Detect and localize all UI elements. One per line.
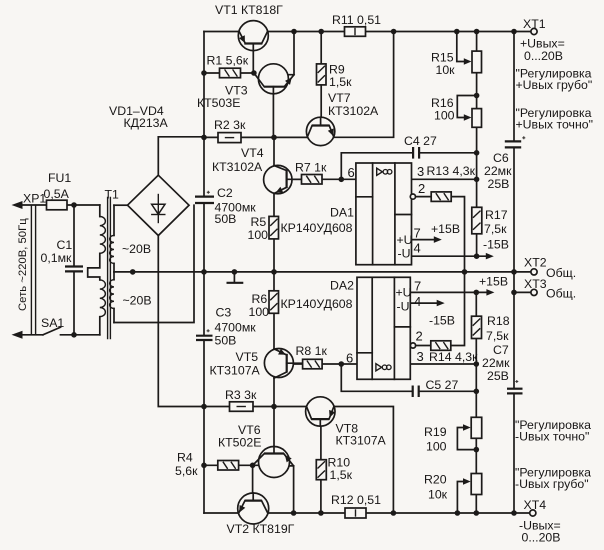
label XT2 common bbox=[546, 266, 576, 280]
wire VT3 base lead down to R2 node bbox=[272, 94, 274, 137]
svg-text:R8 1к: R8 1к bbox=[296, 344, 328, 358]
svg-text:DA2: DA2 bbox=[330, 279, 354, 293]
label XT2 bbox=[524, 255, 547, 269]
node R2 on rail bbox=[201, 135, 207, 141]
label C2 voltage bbox=[215, 212, 237, 226]
label C3 voltage bbox=[215, 334, 237, 348]
op-amp DA1 KR140UD608 bbox=[356, 163, 416, 265]
wire right rail C7 to bottom bus bbox=[513, 394, 515, 513]
label VT4 type bbox=[212, 160, 263, 174]
wire C1 branch vertical bbox=[73, 205, 75, 335]
svg-text:2: 2 bbox=[416, 329, 423, 344]
svg-text:-Uвых точно": -Uвых точно" bbox=[515, 430, 589, 444]
plug XP1 pin arrow top bbox=[12, 201, 23, 209]
label DA2 +15V bbox=[479, 275, 508, 289]
transformer T1 core bbox=[108, 198, 111, 339]
wire R6 bottom to VT5 emitter bbox=[273, 313, 275, 349]
svg-text:Общ.: Общ. bbox=[546, 287, 576, 301]
label VT4 bbox=[241, 146, 264, 160]
node R5/R6 on common bus bbox=[271, 269, 277, 275]
svg-text:7,5к: 7,5к bbox=[484, 222, 507, 236]
label XT3 bbox=[524, 277, 547, 291]
wire XT3 stub bbox=[514, 291, 531, 293]
resistor R10 1.5k bbox=[316, 460, 326, 480]
label C6 bbox=[493, 151, 509, 165]
transistor VT1 KT818G bbox=[238, 21, 268, 73]
label T1 bbox=[105, 187, 120, 201]
node XT1 branch on top bus bbox=[511, 29, 517, 35]
svg-text:+15В: +15В bbox=[431, 222, 460, 236]
wire DA2 pin 4 with -15V arrow bbox=[410, 300, 444, 307]
terminal XT2 bbox=[531, 269, 537, 275]
wire R16 wiper tie bbox=[457, 96, 476, 118]
label R5 bbox=[251, 215, 267, 229]
label XT1 range bbox=[524, 49, 563, 63]
terminal XT1 bbox=[531, 28, 537, 34]
transistor VT8 KT3107A bbox=[306, 397, 336, 426]
svg-text:КТ3107А: КТ3107А bbox=[210, 363, 261, 377]
label R10 value bbox=[330, 468, 353, 482]
node R4 / VT6 collector / VT2 base bbox=[250, 463, 256, 469]
svg-text:R3 3к: R3 3к bbox=[225, 388, 257, 402]
wire secondary bottom to bridge right vertex bbox=[114, 205, 194, 322]
wire C5 right to divider chain bbox=[419, 390, 477, 392]
label VT3 bbox=[225, 84, 248, 98]
wire R2 branch from rail to VT3 base / VT4 collector / VT7 collector node bbox=[204, 136, 307, 138]
svg-text:КТ503Е: КТ503Е bbox=[197, 96, 240, 110]
svg-text:R13 4,3к: R13 4,3к bbox=[427, 164, 476, 178]
node R10 on bottom bus bbox=[318, 510, 324, 516]
node R20 wiper on bus bbox=[455, 510, 461, 516]
svg-text:-15В: -15В bbox=[429, 314, 455, 328]
label R15 value bbox=[436, 63, 456, 77]
transformer T1 secondary winding lower ~20V bbox=[110, 272, 114, 323]
svg-text:0...20В: 0...20В bbox=[522, 531, 561, 545]
resistor R12 0.51 bbox=[345, 508, 366, 518]
capacitor C2 4700uF 50V bbox=[195, 191, 214, 203]
svg-text:R19: R19 bbox=[424, 425, 447, 439]
svg-text:5,6к: 5,6к bbox=[175, 464, 198, 478]
svg-text:4: 4 bbox=[414, 241, 421, 256]
node VT7 emitter on top bus bbox=[391, 29, 397, 35]
label VT5 type bbox=[210, 363, 261, 377]
label C4 value bbox=[404, 134, 437, 148]
label DA2 +U bbox=[396, 286, 412, 300]
wire VT7 emitter to top bus bbox=[334, 32, 394, 138]
label R6 value bbox=[249, 305, 270, 319]
label DA2 pin 6 bbox=[346, 351, 353, 366]
svg-text:С1: С1 bbox=[57, 238, 73, 252]
wire divider chain pin3 node through C5 node to R19 R20 to bottom bus bbox=[475, 364, 477, 513]
svg-text:ХТ1: ХТ1 bbox=[523, 17, 546, 31]
wire R15 wiper tie to top bus bbox=[457, 32, 464, 62]
transformer T1 primary winding bbox=[88, 205, 106, 335]
svg-text:4700мк: 4700мк bbox=[215, 320, 257, 334]
label R12 value bbox=[331, 493, 381, 507]
svg-text:VT4: VT4 bbox=[241, 146, 264, 160]
label DA1 type bbox=[281, 221, 353, 235]
label secondary lower voltage bbox=[123, 294, 152, 308]
svg-text:100: 100 bbox=[434, 108, 455, 122]
wire R3 branch from -raw rail to VT5 collector / VT6 base / VT8 emitter node bbox=[204, 406, 307, 408]
node +raw rail on common bus (C2/C3) bbox=[201, 269, 207, 275]
svg-text:КД213А: КД213А bbox=[124, 116, 169, 130]
svg-text:4: 4 bbox=[414, 294, 421, 309]
node XT2 on common bus bbox=[511, 269, 517, 275]
resistor R13 4.3k bbox=[431, 192, 451, 202]
wire VT4 emitter down to R5 bbox=[273, 193, 275, 216]
svg-text:R14 4,3к: R14 4,3к bbox=[429, 350, 478, 364]
wire right rail XT2 to XT3 to C7 bbox=[513, 272, 515, 389]
label regulation +U fine line2 bbox=[516, 118, 593, 132]
node VT3 emitter on top bus bbox=[291, 29, 297, 35]
svg-text:Сеть ~220В, 50Гц: Сеть ~220В, 50Гц bbox=[17, 218, 29, 311]
transistor VT2 KT819G bbox=[238, 493, 269, 524]
label regulation -U coarse line2 bbox=[515, 477, 589, 491]
label DA1 pin 6 bbox=[348, 165, 355, 180]
svg-text:25В: 25В bbox=[488, 177, 510, 191]
svg-text:R11 0,51: R11 0,51 bbox=[332, 13, 381, 27]
arrow R15 wiper bbox=[464, 58, 472, 65]
wire C4 link from pin6 node bbox=[341, 153, 413, 180]
label regulation -U fine line2 bbox=[515, 430, 589, 444]
svg-text:ХТ3: ХТ3 bbox=[524, 277, 547, 291]
node DA2 pin 6 / C5 junction bbox=[339, 361, 345, 367]
svg-text:FU1: FU1 bbox=[48, 171, 71, 185]
svg-text:С5 27: С5 27 bbox=[426, 378, 459, 392]
label C3 bbox=[216, 305, 232, 319]
node R3 on rail bbox=[201, 404, 207, 410]
transformer T1 secondary winding upper ~20V bbox=[110, 205, 114, 272]
wire DA2 pin 7 to +15V arrow bbox=[410, 289, 494, 296]
label C7 bbox=[493, 343, 509, 357]
svg-text:22мк: 22мк bbox=[482, 356, 510, 370]
node R13/R14 on common bus bbox=[462, 269, 468, 275]
node R15 wiper on bus bbox=[454, 29, 460, 35]
wire rail C2 bottom to common bus to C3 top bbox=[203, 203, 205, 335]
node C4 on divider chain bbox=[474, 150, 480, 156]
wire mains cord pair bbox=[31, 206, 35, 335]
label R9 value bbox=[329, 75, 352, 89]
svg-text:ХТ4: ХТ4 bbox=[524, 498, 547, 512]
svg-text:R17: R17 bbox=[485, 208, 508, 222]
resistor R3 3k bbox=[230, 402, 254, 412]
capacitor C3 4700uF 50V bbox=[196, 329, 213, 340]
label DA2 bbox=[330, 279, 354, 293]
wire DA1 pin 2 through R13 down to common bus and DA2 pin 2 through R14 bbox=[415, 197, 464, 346]
switch SA1 blade bbox=[43, 327, 61, 335]
wire R18 column DA2 pin7 node to pin3 node bbox=[475, 292, 477, 364]
label R14 value bbox=[429, 350, 478, 364]
wire VT3 emitter to top bus bbox=[288, 32, 294, 75]
wire VT6 emitter to bottom bus bbox=[288, 466, 294, 513]
label R18 bbox=[487, 314, 510, 328]
label R19 bbox=[424, 425, 447, 439]
wire R7 from VT4 base to DA1 pin 6 bbox=[287, 178, 356, 180]
label FU1 bbox=[48, 171, 71, 185]
wire C4 right to divider chain bbox=[419, 152, 476, 154]
node DA1 pin 3 on divider chain bbox=[474, 177, 480, 183]
wire bridge left vertex to secondary top bbox=[114, 204, 128, 206]
node R20 bottom on bus bbox=[474, 510, 480, 516]
node R19-R20 junction bbox=[474, 447, 480, 453]
node R9 on top bus bbox=[318, 29, 324, 35]
label C3 value bbox=[215, 320, 257, 334]
svg-text:7,5к: 7,5к bbox=[486, 329, 509, 343]
node switch-C1 junction bbox=[71, 332, 77, 338]
label VT5 bbox=[236, 350, 259, 364]
svg-text:Общ.: Общ. bbox=[546, 266, 576, 280]
node DA1 pin 6 / C4 junction bbox=[339, 177, 345, 183]
node R3 / VT5 collector / VT6 base bbox=[271, 404, 277, 410]
wire R8 from VT5 base to DA2 pin 6 bbox=[287, 363, 357, 365]
label DA1 pin 3 bbox=[417, 164, 424, 179]
label R9 bbox=[329, 63, 345, 77]
wire mains top conductor (plug pin XP1 to fuse FU1 to T1 primary top) bbox=[16, 204, 100, 206]
node VT6 emitter on bottom bus bbox=[291, 510, 297, 516]
svg-text:-15В: -15В bbox=[483, 238, 509, 252]
label C7 voltage bbox=[487, 369, 509, 383]
svg-text:С4 27: С4 27 bbox=[404, 134, 437, 148]
label C6 value bbox=[484, 164, 512, 178]
wire right output rail XT1 to C6 to XT2 bbox=[513, 32, 515, 272]
op-amp DA2 KR140UD608 bbox=[357, 277, 416, 379]
svg-text:1,5к: 1,5к bbox=[329, 75, 352, 89]
svg-text:+U: +U bbox=[396, 286, 412, 300]
svg-text:С2: С2 bbox=[217, 186, 233, 200]
arrow R20 wiper bbox=[463, 478, 471, 485]
label XT1 +Uout bbox=[520, 37, 565, 51]
label R16 bbox=[431, 96, 454, 110]
svg-text:2: 2 bbox=[418, 181, 425, 196]
svg-text:7: 7 bbox=[414, 226, 421, 241]
svg-text:SA1: SA1 bbox=[41, 316, 64, 330]
svg-text:50В: 50В bbox=[215, 334, 237, 348]
svg-text:R20: R20 bbox=[424, 473, 447, 487]
label DA1 +15V bbox=[431, 222, 460, 236]
resistor R8 1k bbox=[303, 359, 323, 369]
node R15-R16 junction bbox=[474, 93, 480, 99]
label R17 bbox=[485, 208, 508, 222]
diode bridge VD1-VD4 bbox=[128, 175, 190, 235]
resistor R1 5.6k bbox=[220, 68, 241, 78]
potentiometer R19 100 bbox=[471, 417, 482, 438]
svg-text:3: 3 bbox=[417, 164, 424, 179]
svg-text:100: 100 bbox=[248, 228, 269, 242]
node R4 on rail bbox=[201, 463, 207, 469]
label VT2 value bbox=[227, 522, 295, 536]
svg-text:6: 6 bbox=[348, 165, 355, 180]
resistor R17 7.5k bbox=[472, 207, 482, 234]
wire VT8 collector to bottom bus bbox=[334, 407, 394, 514]
label DA2 type bbox=[281, 297, 353, 311]
label DA1 -U bbox=[398, 247, 411, 261]
wire mains bottom conductor (plug pin to switch SA1 to T1 primary bottom) bbox=[16, 334, 100, 336]
label R15 bbox=[431, 50, 454, 64]
node fuse-C1 junction bbox=[71, 202, 77, 208]
terminal XT3 bbox=[531, 289, 537, 295]
label C7 value bbox=[482, 356, 510, 370]
label R17 value bbox=[484, 222, 507, 236]
node DA2 pin 3 on divider chain bbox=[474, 361, 480, 367]
svg-text:-U: -U bbox=[398, 247, 411, 261]
label R20 value bbox=[428, 488, 448, 502]
label regulation +U coarse line1 bbox=[516, 67, 592, 81]
svg-text:КТ3102А: КТ3102А bbox=[212, 160, 263, 174]
svg-text:VT2 КТ819Г: VT2 КТ819Г bbox=[227, 522, 295, 536]
svg-text:~20В: ~20В bbox=[122, 242, 151, 256]
node R15 top on bus bbox=[474, 29, 480, 35]
wire DA2 pin 3 to divider chain bbox=[410, 363, 476, 365]
svg-text:КТ502Е: КТ502Е bbox=[218, 436, 261, 450]
label R19 value bbox=[426, 440, 447, 454]
resistor R18 7.5k bbox=[472, 316, 482, 338]
svg-text:ХТ2: ХТ2 bbox=[524, 255, 547, 269]
label XT4 range bbox=[522, 531, 561, 545]
wire bottom output bus (VT2 collector to XT4) bbox=[204, 512, 530, 514]
label R4 value bbox=[175, 464, 198, 478]
label R3 value bbox=[225, 388, 257, 402]
wire R5 bottom to common bus bbox=[273, 239, 275, 272]
node C7 rail on bottom bus bbox=[511, 510, 517, 516]
svg-text:0,5А: 0,5А bbox=[44, 187, 70, 201]
label VT7 type bbox=[328, 104, 379, 118]
label VT8 type bbox=[336, 434, 387, 448]
svg-text:С6: С6 bbox=[493, 151, 509, 165]
svg-text:1,5к: 1,5к bbox=[330, 468, 353, 482]
wire R19 wiper tie to R19 bottom bbox=[457, 428, 476, 450]
label R4 bbox=[177, 451, 193, 465]
resistor R6 100 bbox=[269, 291, 279, 314]
svg-text:VT7: VT7 bbox=[328, 91, 351, 105]
label regulation +U fine line1 bbox=[516, 106, 592, 120]
transistor VT6 KT502E bbox=[253, 447, 294, 478]
ground symbol on common bus bbox=[227, 269, 244, 283]
wire divider chain R15 R16 column from top bus bbox=[476, 32, 478, 208]
label C1 bbox=[57, 238, 73, 252]
svg-text:-U: -U bbox=[397, 300, 410, 314]
label regulation +U coarse line2 bbox=[516, 78, 593, 92]
label DA2 pin 7 bbox=[414, 279, 421, 294]
svg-text:+Uвых грубо": +Uвых грубо" bbox=[516, 78, 593, 92]
wire VT4 collector up to R2 node bbox=[273, 137, 275, 166]
wire R6 top from common bus bbox=[273, 272, 275, 291]
resistor R9 1.5k bbox=[317, 64, 327, 85]
resistor R4 5.6k bbox=[218, 461, 239, 471]
transistor VT3 KT503E bbox=[254, 64, 294, 94]
label DA1 bbox=[330, 205, 354, 219]
svg-text:6: 6 bbox=[346, 351, 353, 366]
wire R9 from top bus to VT7 base bbox=[320, 32, 322, 126]
label FU1 value bbox=[44, 187, 70, 201]
potentiometer R20 10k bbox=[471, 474, 482, 495]
svg-text:10к: 10к bbox=[428, 488, 448, 502]
label R20 bbox=[424, 473, 447, 487]
label VD1-VD4 bbox=[109, 104, 164, 118]
svg-text:R12 0,51: R12 0,51 bbox=[331, 493, 381, 507]
label C5 value bbox=[426, 378, 459, 392]
plug XP1 pin arrow bottom bbox=[12, 331, 23, 339]
label R1 value bbox=[207, 54, 249, 68]
label XT4 -Uout bbox=[519, 519, 561, 533]
svg-text:+U: +U bbox=[397, 233, 413, 247]
label DA2 pin 2 bbox=[416, 329, 423, 344]
label VT1 value bbox=[215, 3, 283, 17]
fuse FU1 bbox=[47, 200, 68, 210]
svg-text:0...20В: 0...20В bbox=[524, 49, 563, 63]
resistor R14 4.3k bbox=[431, 341, 451, 351]
svg-text:R18: R18 bbox=[487, 314, 510, 328]
node VT1 base / VT3 collector / R1 bbox=[251, 70, 257, 76]
wire VT6 base lead up to R3 node bbox=[273, 407, 275, 454]
svg-text:С3: С3 bbox=[216, 305, 232, 319]
label VT7 bbox=[328, 91, 351, 105]
node XT3 branch bbox=[511, 290, 517, 296]
wire C5 link from pin6 node bbox=[341, 364, 412, 391]
label R7 value bbox=[295, 161, 327, 175]
label XT3 common bbox=[546, 287, 576, 301]
label VT3 type bbox=[197, 96, 240, 110]
label DA1 pin 2 bbox=[418, 181, 425, 196]
label DA1 pin 4 bbox=[414, 241, 421, 256]
node C5 on divider chain bbox=[474, 389, 480, 395]
label R6 bbox=[252, 292, 268, 306]
wire VT8 base to R10 to bottom bus bbox=[320, 419, 322, 513]
label R2 value bbox=[214, 118, 246, 132]
label regulation -U fine line1 bbox=[515, 418, 591, 432]
svg-text:R1 5,6к: R1 5,6к bbox=[207, 54, 249, 68]
label R11 value bbox=[332, 13, 381, 27]
wire +raw rail (VT1 emitter / R1 / R2 / C2 column) bbox=[203, 32, 205, 197]
svg-text:R5: R5 bbox=[251, 215, 267, 229]
wire VT5 collector down to R3 node bbox=[273, 378, 275, 407]
label R10 bbox=[328, 455, 351, 469]
svg-text:-Uвых грубо": -Uвых грубо" bbox=[515, 477, 589, 491]
label R8 value bbox=[296, 344, 328, 358]
svg-text:Т1: Т1 bbox=[105, 187, 120, 201]
svg-text:100: 100 bbox=[249, 305, 270, 319]
label C2 value bbox=[215, 200, 257, 214]
svg-text:R2 3к: R2 3к bbox=[214, 118, 246, 132]
svg-text:R7 1к: R7 1к bbox=[295, 161, 327, 175]
wire DA1 pin 4 to -15V arrow bbox=[412, 253, 494, 260]
label VT8 bbox=[336, 422, 359, 436]
capacitor C1 bbox=[65, 267, 83, 272]
label VT6 bbox=[238, 423, 261, 437]
svg-text:VT5: VT5 bbox=[236, 350, 259, 364]
transistor VT4 KT3102A bbox=[264, 165, 302, 193]
label XT4 bbox=[524, 498, 547, 512]
label VD type KD213A bbox=[124, 116, 169, 130]
wire -raw rail (C3 bottom / R3 / down to VT2 emitter bus) bbox=[203, 340, 205, 513]
wire top output bus (VT1 collector to XT1) bbox=[204, 31, 531, 33]
label DA1 pin 7 bbox=[414, 226, 421, 241]
transistor VT5 KT3107A bbox=[264, 349, 302, 379]
label XP1 bbox=[23, 192, 46, 206]
wire DA1 pin 7 with +15V arrow bbox=[412, 236, 442, 243]
svg-text:7: 7 bbox=[414, 279, 421, 294]
svg-text:R6: R6 bbox=[252, 292, 268, 306]
label DA2 -15V bbox=[429, 314, 455, 328]
svg-text:R4: R4 bbox=[177, 451, 193, 465]
label R13 value bbox=[427, 164, 476, 178]
capacitor C5 27 bbox=[413, 386, 419, 398]
svg-text:3: 3 bbox=[417, 349, 424, 364]
arrow R19 wiper bbox=[463, 424, 471, 431]
label XT1 bbox=[523, 17, 546, 31]
wire bridge minus output down to -raw rail bbox=[158, 236, 204, 407]
label mains network rotated bbox=[17, 218, 29, 311]
